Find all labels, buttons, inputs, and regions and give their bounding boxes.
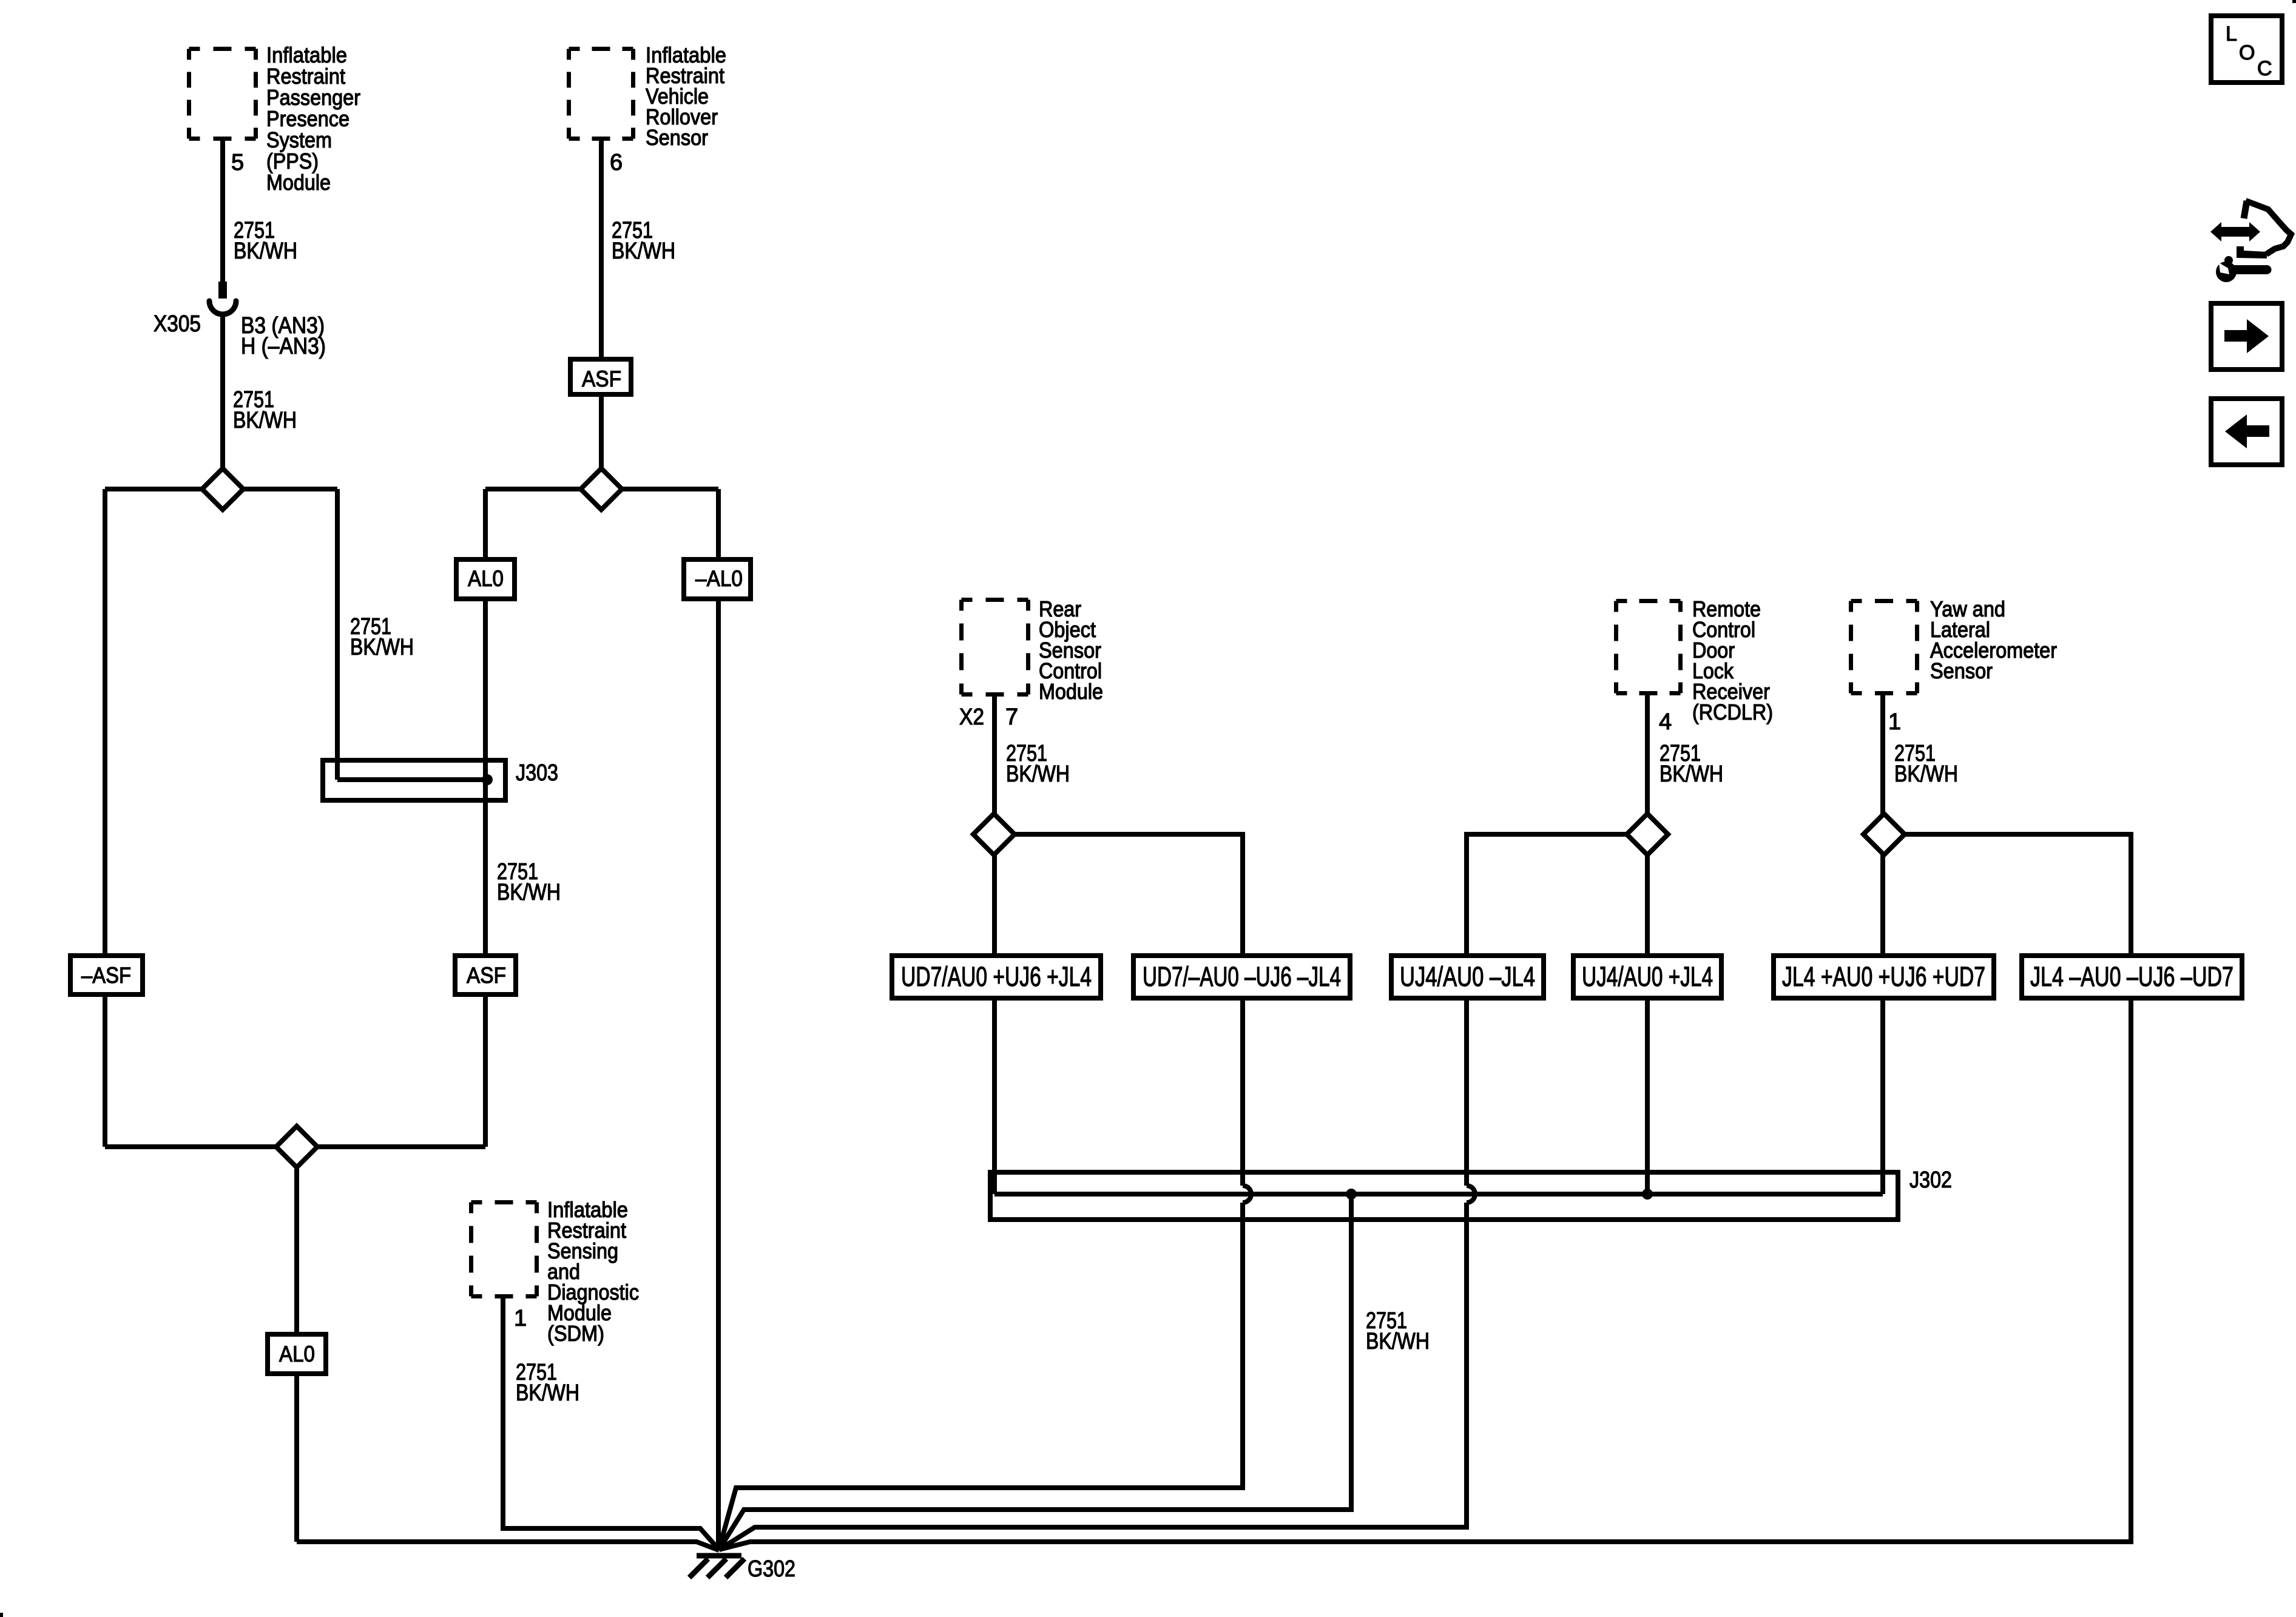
option box UD7/AU0 +UJ6 +JL4 bbox=[892, 956, 1101, 998]
ground G302 symbol bbox=[689, 1556, 745, 1578]
junction dot on J302 bus (RCDLR branch) bbox=[1642, 1189, 1653, 1200]
wire: splice horizontal AL0 / -AL0 bbox=[485, 487, 718, 491]
icon: previous-page arrow box bbox=[2211, 399, 2282, 465]
wire: PPS pin 5 to connector X305 bbox=[220, 138, 225, 282]
svg-text:J302: J302 bbox=[1909, 1167, 1952, 1193]
svg-text:BK/WH: BK/WH bbox=[1660, 761, 1723, 787]
svg-text:BK/WH: BK/WH bbox=[234, 238, 297, 264]
label: circuit 2751 BK/WH (rollover segment) bbox=[612, 218, 675, 264]
svg-text:UJ4/AU0 –JL4: UJ4/AU0 –JL4 bbox=[1400, 961, 1535, 992]
svg-text:Module: Module bbox=[266, 170, 331, 195]
svg-text:AL0: AL0 bbox=[468, 566, 504, 591]
svg-text:1: 1 bbox=[514, 1306, 527, 1331]
svg-text:G302: G302 bbox=[748, 1556, 795, 1582]
icon: LOC legend box bbox=[2211, 16, 2282, 83]
svg-text:5: 5 bbox=[231, 150, 244, 175]
option box UJ4/AU0 -JL4 bbox=[1391, 956, 1544, 998]
svg-text:ASF: ASF bbox=[467, 963, 506, 988]
svg-text:BK/WH: BK/WH bbox=[350, 635, 414, 660]
label: RCDLR module name text bbox=[1692, 596, 1773, 724]
wire: UJ4/AU0 -JL4 branch to ground G302 bbox=[719, 1203, 1467, 1550]
wire: yaw sensor pin 1 down to J302 bus corner bbox=[1880, 695, 1885, 1194]
svg-text:UJ4/AU0 +JL4: UJ4/AU0 +JL4 bbox=[1582, 961, 1713, 992]
svg-text:Sensor: Sensor bbox=[1930, 658, 1993, 683]
label: circuit 2751 BK/WH (J302 to ground) bbox=[1366, 1308, 1430, 1354]
option box JL4 -AU0 -UJ6 -UD7 bbox=[2022, 956, 2242, 998]
splice diamond (yaw branch) bbox=[1863, 814, 1905, 855]
svg-text:UD7/AU0 +UJ6 +JL4: UD7/AU0 +UJ6 +JL4 bbox=[901, 961, 1092, 992]
svg-text:UD7/–AU0 –UJ6 –JL4: UD7/–AU0 –UJ6 –JL4 bbox=[1143, 961, 1341, 992]
wire: rollover sensor pin 6 down to ASF box bbox=[599, 138, 604, 359]
splice pack J302 box bbox=[990, 1172, 1898, 1220]
wire: AL0 branch down through J303 and ASF to lower splice bbox=[483, 489, 488, 1147]
wire: hop over J302 bus (UD7/-AU0 branch) bbox=[1243, 1186, 1251, 1203]
wire: splice horizontal to -ASF branch and J303 branch bbox=[105, 487, 337, 491]
splice diamond (RCDLR branch) bbox=[1627, 814, 1668, 855]
junction dot on J302 bus (2751 BK/WH takeoff) bbox=[1346, 1189, 1357, 1200]
wire: SDM pin 1 down and right to ground G302 bbox=[503, 1298, 719, 1550]
svg-text:BK/WH: BK/WH bbox=[1366, 1329, 1430, 1354]
wire: RCDLR pin 4 down to J302 bus junction bbox=[1645, 695, 1650, 1194]
svg-text:BK/WH: BK/WH bbox=[612, 238, 675, 264]
svg-text:6: 6 bbox=[610, 150, 623, 175]
svg-text:BK/WH: BK/WH bbox=[497, 880, 561, 905]
label: rollover sensor name text bbox=[646, 42, 726, 150]
wire: ASF box to splice diamond bbox=[599, 394, 604, 489]
svg-text:L: L bbox=[2226, 22, 2237, 46]
splice pack J303 box bbox=[323, 760, 505, 800]
wire: UD7/-AU0 branch to ground G302 bbox=[719, 1203, 1243, 1549]
option box -AL0 bbox=[684, 559, 751, 599]
svg-text:1: 1 bbox=[1888, 709, 1901, 735]
wire: splice horizontal to UD7/-AU0 branch bbox=[994, 834, 1243, 956]
wire: horizontal joining -ASF and ASF branches bbox=[105, 1144, 485, 1149]
module: Yaw and Lateral Accelerometer Sensor (dashed box) bbox=[1851, 601, 1917, 694]
svg-text:AL0: AL0 bbox=[279, 1342, 315, 1366]
label: circuit 2751 BK/WH (below J303) bbox=[497, 859, 561, 905]
label: circuit 2751 BK/WH (below X305) bbox=[233, 387, 297, 433]
svg-text:BK/WH: BK/WH bbox=[233, 408, 297, 433]
svg-text:J303: J303 bbox=[516, 760, 558, 786]
wire: splice horizontal to UJ4/AU0 -JL4 branch bbox=[1467, 834, 1647, 956]
svg-text:7: 7 bbox=[1005, 704, 1018, 730]
module: Rear Object Sensor Control Module (dashed box) bbox=[962, 600, 1028, 695]
svg-text:JL4 +AU0 +UJ6 +UD7: JL4 +AU0 +UJ6 +UD7 bbox=[1782, 961, 1985, 992]
svg-text:–ASF: –ASF bbox=[81, 963, 131, 988]
wire: hop over J302 bus (UJ4/AU0 -JL4 branch) bbox=[1467, 1186, 1475, 1203]
module: Inflatable Restraint Vehicle Rollover Sensor (dashed box) bbox=[569, 49, 633, 139]
wire: J302 internal bus bbox=[994, 1192, 1883, 1197]
label: circuit 2751 BK/WH (PPS segment) bbox=[234, 218, 297, 264]
label: rear object sensor control module name text bbox=[1039, 596, 1103, 704]
svg-text:4: 4 bbox=[1659, 709, 1672, 735]
connector X305 male pin bbox=[218, 282, 227, 299]
svg-text:X305: X305 bbox=[154, 311, 201, 337]
splice diamond (ROS branch) bbox=[973, 814, 1015, 855]
module: Inflatable Restraint Sensing and Diagnostic Module (SDM) (dashed box) bbox=[471, 1203, 537, 1297]
wire: ROS module pin X2-7 down to J302 bus bbox=[992, 697, 997, 1194]
label: circuit 2751 BK/WH (SDM segment) bbox=[516, 1360, 579, 1406]
connector X305 female cup bbox=[209, 301, 236, 314]
option box UD7/-AU0 -UJ6 -JL4 bbox=[1133, 956, 1350, 998]
svg-text:O: O bbox=[2239, 41, 2255, 64]
splice diamond (PPS branch) bbox=[202, 468, 243, 510]
svg-text:BK/WH: BK/WH bbox=[1006, 761, 1070, 787]
splice diamond (rollover branch) bbox=[581, 468, 622, 510]
svg-text:BK/WH: BK/WH bbox=[1894, 761, 1958, 787]
icon: connector service tool (double arrow and wrench) bbox=[2210, 201, 2291, 282]
label: PPS module name text bbox=[266, 42, 360, 195]
svg-text:Sensor: Sensor bbox=[646, 125, 708, 150]
option box -ASF bbox=[70, 956, 143, 994]
wire: right branch down into J303 bbox=[335, 489, 340, 780]
page corner mark (top right) bbox=[2292, 0, 2296, 3]
label: circuit 2751 BK/WH (yaw segment) bbox=[1894, 741, 1958, 787]
wire: bottom run from AL0 branch to ground G302 bbox=[297, 1542, 719, 1550]
icon: next-page arrow box bbox=[2211, 303, 2282, 370]
module: Inflatable Restraint Passenger Presence System (PPS) Module (dashed box) bbox=[189, 49, 256, 139]
junction dot inside J303 bbox=[482, 774, 493, 785]
svg-text:–AL0: –AL0 bbox=[695, 566, 743, 591]
option box ASF (lower) bbox=[455, 956, 516, 994]
wire: UD7/-AU0 branch below box to J302 hop bbox=[1240, 998, 1245, 1186]
wire: J303 internal bus bbox=[337, 777, 487, 782]
wire: left branch down to -ASF and splice below bbox=[103, 489, 107, 1147]
label: yaw sensor name text bbox=[1930, 596, 2057, 683]
option box AL0 (lower) bbox=[268, 1334, 326, 1374]
option box UJ4/AU0 +JL4 bbox=[1573, 956, 1721, 998]
option box AL0 (upper) bbox=[456, 559, 515, 599]
svg-text:Module: Module bbox=[1039, 679, 1103, 704]
svg-text:(RCDLR): (RCDLR) bbox=[1692, 700, 1773, 724]
label: circuit 2751 BK/WH (J303 branch) bbox=[350, 614, 414, 660]
svg-text:BK/WH: BK/WH bbox=[516, 1380, 579, 1406]
svg-text:(SDM): (SDM) bbox=[547, 1321, 604, 1346]
svg-text:JL4 –AU0 –UJ6 –UD7: JL4 –AU0 –UJ6 –UD7 bbox=[2030, 961, 2234, 992]
wire: lower splice down through AL0 to ground run bbox=[294, 1147, 299, 1542]
svg-text:C: C bbox=[2257, 57, 2272, 80]
wire: JL4 -AU0 branch to ground G302 (long run) bbox=[719, 998, 2131, 1550]
svg-text:H (–AN3): H (–AN3) bbox=[241, 334, 326, 359]
svg-text:ASF: ASF bbox=[582, 366, 621, 391]
label: circuit 2751 BK/WH (ROS segment) bbox=[1006, 741, 1070, 787]
svg-text:X2: X2 bbox=[959, 704, 984, 730]
option box JL4 +AU0 +UJ6 +UD7 bbox=[1774, 956, 1994, 998]
splice diamond (lower left) bbox=[276, 1126, 317, 1167]
wire: X305 to splice diamond bbox=[220, 312, 225, 489]
wire: J302 bus takeoff down to ground G302 bbox=[719, 1194, 1351, 1550]
wire: UJ4/AU0 -JL4 branch below box to J302 hop bbox=[1464, 998, 1469, 1186]
module: Remote Control Door Lock Receiver (RCDLR) (dashed box) bbox=[1616, 601, 1681, 694]
page corner mark (bottom left) bbox=[0, 1613, 3, 1617]
label: SDM module name text bbox=[547, 1197, 639, 1346]
wire: splice horizontal to JL4 -AU0 branch bbox=[1884, 834, 2131, 956]
wire: -AL0 branch down to ground G302 bbox=[716, 489, 721, 1550]
label: circuit 2751 BK/WH (RCDLR segment) bbox=[1660, 741, 1723, 787]
option box ASF (upper) bbox=[570, 359, 631, 394]
